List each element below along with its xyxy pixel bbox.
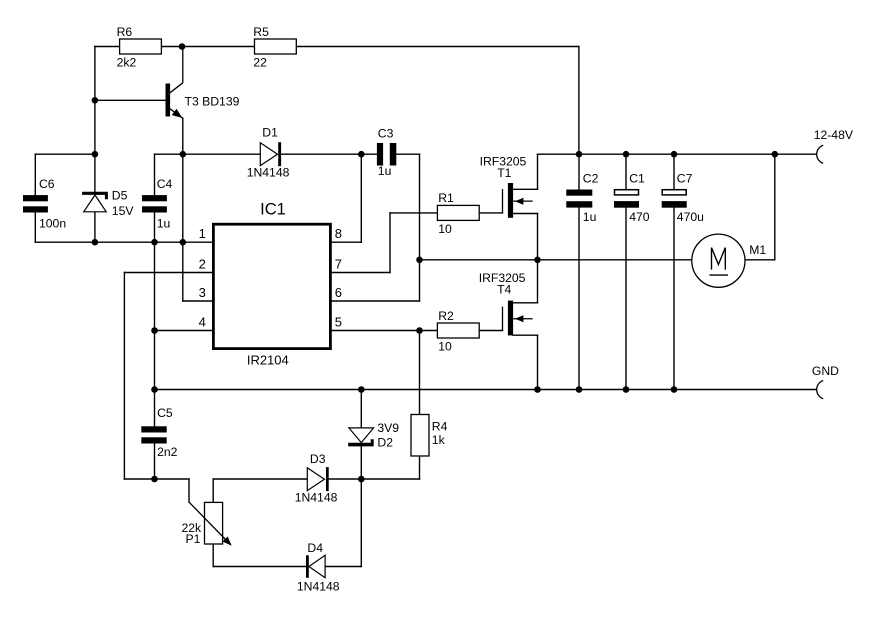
svg-text:5: 5 <box>335 314 342 329</box>
resistor R5 <box>253 25 296 70</box>
capacitor C5 2n2 <box>141 406 177 459</box>
transistor T4 IRF3205 MOSFET <box>479 271 533 336</box>
node junction 9 at 774.8,154.2 <box>772 151 779 158</box>
node junction 22 at 674.0,389.5 <box>671 386 678 393</box>
node junction 6 at 579.0,154.2 <box>576 151 583 158</box>
svg-text:4: 4 <box>199 314 206 329</box>
wire C2 bottom lead <box>578 208 580 390</box>
svg-text:R2: R2 <box>438 309 454 323</box>
wire pin2 left vertical <box>123 273 125 480</box>
capacitor C7 470u electrolytic <box>662 171 704 224</box>
node junction 20 at 579.0,389.5 <box>576 386 583 393</box>
svg-text:3: 3 <box>199 285 206 300</box>
wire motor right lead <box>745 259 775 261</box>
svg-text:M1: M1 <box>749 243 766 257</box>
svg-text:D2: D2 <box>377 436 393 450</box>
wire D3 cathode to node <box>329 478 362 480</box>
diode D3 1N4148 <box>295 452 338 505</box>
wire P1 bottom lead <box>212 544 214 567</box>
svg-text:7: 7 <box>335 256 342 271</box>
resistor R6 <box>117 25 162 70</box>
wire C6 to D5 row <box>35 153 95 155</box>
node junction 2 at 94.9,100.3 <box>92 97 99 104</box>
diode D4 1N4148 <box>297 541 340 593</box>
svg-text:C2: C2 <box>583 171 599 185</box>
svg-text:R1: R1 <box>438 191 454 205</box>
svg-text:15V: 15V <box>112 204 135 218</box>
svg-text:P1: P1 <box>185 532 200 546</box>
wire C6 bottom lead <box>34 213 36 243</box>
wire pin3 riser <box>182 242 184 301</box>
wire T1 drain riser <box>537 154 539 189</box>
svg-text:D5: D5 <box>112 189 128 203</box>
svg-text:470u: 470u <box>677 210 704 224</box>
svg-text:C1: C1 <box>629 171 645 185</box>
wire D4 row right <box>309 566 362 568</box>
wire R6 left stub <box>95 46 120 48</box>
wire D2 bottom lead <box>360 446 362 479</box>
svg-text:1u: 1u <box>157 216 171 230</box>
node junction 13 at 154.5,330.5 <box>151 327 158 334</box>
capacitor C3 1u <box>377 127 396 178</box>
pin 1 label <box>199 226 206 241</box>
wire left vertical R6 to D5 <box>94 47 96 192</box>
wire R4 top lead <box>419 331 421 415</box>
node junction 24 at 361.3,479.0 <box>358 476 365 483</box>
svg-text:470: 470 <box>629 210 650 224</box>
wire GND rail <box>155 389 816 391</box>
wire pin8 riser to D1 cathode <box>360 154 362 242</box>
resistor R2 <box>437 309 479 354</box>
node junction 19 at 537.5,389.5 <box>534 386 541 393</box>
capacitor C4 1u <box>142 177 173 230</box>
svg-text:D3: D3 <box>310 452 326 466</box>
wire C6 top lead <box>34 154 36 195</box>
wire 12-48V rail <box>538 153 816 155</box>
zener diode D5 15V <box>82 189 134 218</box>
svg-text:6: 6 <box>335 285 342 300</box>
wire pin2 stub <box>124 272 212 274</box>
svg-text:C3: C3 <box>378 127 394 141</box>
svg-text:D4: D4 <box>307 541 323 555</box>
wire C3 to corner <box>396 153 419 155</box>
svg-text:1u: 1u <box>378 164 392 178</box>
svg-text:GND: GND <box>812 364 839 378</box>
wire R4 bottom corner to node <box>361 478 419 480</box>
svg-text:1k: 1k <box>432 433 446 447</box>
svg-text:22: 22 <box>253 56 267 70</box>
wire pin4 stub <box>155 330 213 332</box>
op-amp / driver IC U1 IR2104 box <box>213 200 330 367</box>
node junction 3 at 94.9,154.2 <box>92 151 99 158</box>
wire R1 to T1 gate <box>479 212 502 214</box>
wire R5 to supply corner <box>296 46 579 48</box>
node junction 4 at 182.8,154.2 <box>180 151 187 158</box>
transistor T1 IRF3205 MOSFET <box>480 154 533 218</box>
capacitor C2 1u <box>566 171 598 224</box>
svg-text:10: 10 <box>438 340 452 354</box>
motor M1 <box>692 234 767 287</box>
svg-text:2k2: 2k2 <box>117 56 137 70</box>
pin 7 label <box>335 256 342 271</box>
capacitor C6 100n <box>23 177 66 230</box>
svg-text:C6: C6 <box>39 177 55 191</box>
svg-text:T1: T1 <box>497 166 511 180</box>
svg-text:2n2: 2n2 <box>157 445 178 459</box>
wire P1 top lead <box>212 479 214 502</box>
svg-text:3V9: 3V9 <box>377 421 399 435</box>
wire D1 row left <box>155 153 261 155</box>
wire D4 row left <box>213 566 306 568</box>
svg-text:12-48V: 12-48V <box>814 128 854 142</box>
node junction 12 at 182.8,242.2 <box>180 239 187 246</box>
svg-text:8: 8 <box>335 226 342 241</box>
wire R6 to R5 top row <box>159 46 254 48</box>
svg-text:IC1: IC1 <box>260 200 286 218</box>
resistor R4 <box>411 415 448 457</box>
wire motor node row <box>420 259 692 261</box>
diode D1 1N4148 <box>247 126 290 180</box>
wire C1 bottom lead <box>625 208 627 390</box>
svg-text:1: 1 <box>199 226 206 241</box>
node junction 23 at 154.5,479.0 <box>151 476 158 483</box>
pin 3 label <box>199 285 206 300</box>
wire C4 bottom lead <box>154 213 156 243</box>
svg-text:T4: T4 <box>497 283 511 297</box>
pin 5 label <box>335 314 342 329</box>
svg-text:T3 BD139: T3 BD139 <box>185 94 240 108</box>
wire pin7 riser <box>389 213 391 273</box>
wire VCC row to IC pin 1 <box>35 241 212 243</box>
wire T1 source stub <box>513 213 538 215</box>
wire motor riser to rail <box>774 154 776 260</box>
wire left vertical D5 to VCC row <box>94 212 96 242</box>
node junction 8 at 674.0,154.2 <box>671 151 678 158</box>
wire C2 top lead <box>578 154 580 189</box>
wire R4 bottom lead <box>419 456 421 479</box>
wire C7 bottom lead <box>673 208 675 390</box>
svg-text:C7: C7 <box>677 171 693 185</box>
capacitor C1 470 electrolytic <box>614 171 650 224</box>
node junction 16 at 419.5,330.5 <box>416 327 423 334</box>
wire pin7 to R1 <box>390 212 437 214</box>
svg-text:C5: C5 <box>157 406 173 420</box>
wire D2 node down to D4 row <box>360 479 362 567</box>
node junction 11 at 154.5,242.2 <box>151 239 158 246</box>
wire T3 emitter vertical <box>182 118 184 242</box>
wire C5 bottom to low row <box>154 444 156 480</box>
wire T4 drain stub <box>513 302 538 304</box>
wire low row to D3 <box>213 478 307 480</box>
svg-text:1u: 1u <box>583 210 597 224</box>
wire pin3 stub <box>183 300 212 302</box>
node junction 7 at 626.0,154.2 <box>623 151 630 158</box>
wire pin5 row to R2 <box>332 330 438 332</box>
wire T4 source drop <box>537 335 539 389</box>
svg-text:C4: C4 <box>157 177 173 191</box>
terminal 12-48V <box>814 128 854 163</box>
zener diode D2 3V9 <box>348 421 399 450</box>
wire C4 top corner <box>154 154 156 195</box>
pin 4 label <box>199 314 206 329</box>
transistor T3 BD139 <box>166 47 240 119</box>
pin 2 label <box>199 256 206 271</box>
wire C4 line down to pin4 row and GND <box>154 242 156 426</box>
svg-text:1N4148: 1N4148 <box>297 579 340 593</box>
wire T1 drain stub <box>513 188 538 190</box>
wire top-right drop to 12-48V rail <box>578 47 580 155</box>
pin 8 label <box>335 226 342 241</box>
svg-text:2: 2 <box>199 256 206 271</box>
resistor R1 <box>437 191 479 236</box>
node junction 1 at 182.0,46.5 <box>179 43 186 50</box>
wire pin6 stub <box>332 300 420 302</box>
svg-text:10: 10 <box>438 222 452 236</box>
wire R2 to T4 gate <box>479 330 502 332</box>
wire T4 drain riser <box>537 260 539 303</box>
wire T3 base wire <box>95 99 166 101</box>
node junction 10 at 94.9,242.2 <box>92 239 99 246</box>
wire pin2 bottom corner <box>124 478 154 480</box>
wire T4 source stub <box>513 334 538 336</box>
svg-text:R6: R6 <box>117 25 133 39</box>
wire T1 source drop <box>537 214 539 260</box>
node junction 15 at 537.5,259.8 <box>534 257 541 264</box>
node junction 5 at 361.3,154.2 <box>358 151 365 158</box>
svg-text:100n: 100n <box>39 216 66 230</box>
node junction 17 at 154.5,389.5 <box>151 386 158 393</box>
wire D1 to C3 <box>281 153 377 155</box>
wire pin7 stub <box>332 272 390 274</box>
wire pin8 stub <box>332 241 362 243</box>
svg-text:IR2104: IR2104 <box>247 353 289 368</box>
node junction 14 at 419.5,259.8 <box>416 257 423 264</box>
wire pin6 riser to C3 right <box>419 154 421 301</box>
wire C7 top lead <box>673 154 675 190</box>
pin 6 label <box>335 285 342 300</box>
wire C1 top lead <box>625 154 627 190</box>
wire wiper drop <box>188 479 190 502</box>
potentiometer P1 22k <box>181 502 231 546</box>
svg-text:R5: R5 <box>253 25 269 39</box>
node junction 21 at 626.0,389.5 <box>623 386 630 393</box>
svg-text:D1: D1 <box>262 126 278 140</box>
svg-text:1N4148: 1N4148 <box>247 165 290 179</box>
node junction 18 at 361.3,389.5 <box>358 386 365 393</box>
svg-text:R4: R4 <box>432 420 448 434</box>
terminal / ground GND <box>812 364 839 399</box>
wire low row left <box>155 478 190 480</box>
wire D2 top lead <box>360 390 362 428</box>
svg-text:1N4148: 1N4148 <box>295 490 338 504</box>
